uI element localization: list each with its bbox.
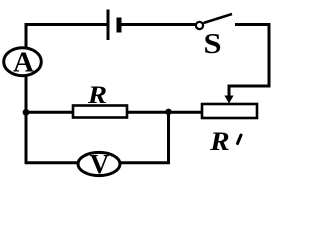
wire right vertical	[268, 23, 271, 88]
svg-text:S: S	[203, 28, 221, 60]
node junction middle	[165, 109, 171, 115]
switch S pivot circle	[196, 22, 203, 29]
rheostat R' prime mark	[238, 135, 242, 144]
rheostat R' body	[202, 104, 257, 118]
svg-text:V: V	[90, 149, 110, 179]
wire top-left horizontal	[25, 23, 107, 26]
svg-text:A: A	[13, 47, 34, 79]
resistor R body	[73, 106, 127, 118]
node junction left	[23, 109, 30, 116]
wire middle horizontal R branch	[25, 111, 169, 114]
battery B1 short plate	[117, 18, 122, 33]
rheostat wiper arrow	[224, 96, 233, 104]
wire battery to switch	[121, 23, 196, 26]
voltmeter V body	[78, 152, 120, 175]
wire to rheostat wiper	[229, 85, 271, 88]
wire junction to rheostat	[167, 111, 203, 114]
ammeter A body	[4, 48, 42, 76]
wire left vertical	[25, 23, 28, 164]
wire switch to right corner	[235, 23, 271, 26]
wire bottom horizontal	[25, 161, 170, 164]
battery B1 long plate	[107, 10, 110, 41]
switch S blade	[204, 14, 233, 23]
wire middle vertical down	[167, 111, 170, 164]
svg-text:R: R	[87, 81, 107, 109]
svg-text:R: R	[209, 126, 229, 155]
wire wiper vertical	[228, 85, 231, 98]
